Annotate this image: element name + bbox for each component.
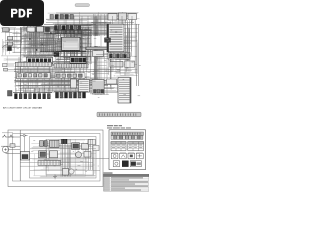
wires into CN9 <box>104 84 118 92</box>
terminal strip T1 <box>16 62 52 66</box>
CN9 right edge <box>130 78 131 104</box>
legend table L <box>111 142 126 151</box>
legend header bar <box>111 132 144 135</box>
U1 inner shade <box>64 43 79 49</box>
terminal row TR1 <box>15 94 51 99</box>
junction box A1 <box>27 27 35 32</box>
fuse labels <box>2 132 13 134</box>
connector CN7 <box>92 80 104 95</box>
capacitor C1 <box>8 47 12 51</box>
wire mesh background left lower <box>4 56 26 72</box>
legend dark chip <box>122 161 128 167</box>
wire mesh background right bundle <box>90 16 112 95</box>
CN3 side bundle <box>126 20 132 56</box>
label text <box>3 29 10 31</box>
resistor R2 <box>8 42 13 45</box>
ground bus <box>13 92 52 94</box>
connector row CN1 <box>50 15 73 20</box>
battery wires <box>1 145 20 147</box>
connector bank CN2 <box>55 26 81 31</box>
wire mesh background lower rows <box>14 61 90 92</box>
connector CN9 tall <box>118 78 131 104</box>
component value labels <box>2 27 141 172</box>
module M2 <box>110 62 123 68</box>
relay bank RB1 <box>27 57 53 64</box>
amp box <box>84 152 91 158</box>
legend table R <box>128 142 144 151</box>
RL1 contacts <box>22 155 28 159</box>
wire mesh background mid band <box>16 76 122 93</box>
legend caption line 1 <box>107 125 122 126</box>
vertical bundle center <box>61 139 71 176</box>
dense bus top right <box>75 26 115 31</box>
bus over CN2 <box>44 24 96 26</box>
wire mesh A horizontals <box>21 28 56 55</box>
relay RL2 <box>39 151 47 158</box>
motor M blower <box>76 152 82 158</box>
notes table row lines <box>104 179 150 189</box>
breaker box B1 <box>8 91 13 97</box>
compressor relay <box>72 143 80 150</box>
bar bus right <box>86 47 110 50</box>
connector CN8 rows <box>107 79 117 84</box>
terminal row TR2 bus <box>54 91 88 93</box>
resistor R1 <box>8 37 13 40</box>
diode D1 <box>46 28 50 32</box>
battery G1 <box>2 146 8 152</box>
CN3 left edge <box>107 24 109 52</box>
switch S1 <box>3 28 10 32</box>
notes table caption <box>104 172 113 174</box>
notes table rows <box>104 177 148 191</box>
wire bus mid verticals <box>24 66 76 92</box>
relay RL3 <box>50 151 58 158</box>
fuse F1 <box>2 135 7 137</box>
pressure switch box <box>82 144 89 150</box>
CN3 pin lines <box>110 26 123 50</box>
wire mesh AC diagram interior <box>30 139 96 177</box>
wire mesh background left column <box>1 27 22 56</box>
legend table content marks <box>112 145 142 148</box>
wires to modules <box>96 55 108 59</box>
ground symbol <box>53 175 57 179</box>
legend icon box 5 <box>113 161 119 167</box>
wire harness top <box>46 18 120 20</box>
legend icon captions <box>112 151 118 153</box>
vertical bundle right <box>89 139 93 170</box>
fusible link box <box>10 144 15 147</box>
feed wire top <box>7 136 20 138</box>
legend icon box 2 <box>120 153 127 159</box>
legend brand plate <box>130 161 141 167</box>
terminal strip T4 <box>55 73 85 78</box>
legend icon box 4 <box>136 153 143 159</box>
wire mesh A verticals <box>24 26 54 57</box>
cross wires <box>30 148 96 150</box>
part number strip <box>97 112 141 117</box>
terminal strip T3 <box>54 64 88 68</box>
wire stubs left <box>13 33 22 52</box>
relay box RL1 <box>21 152 30 161</box>
TS2 label line <box>38 158 58 160</box>
terminal strip TS2 <box>38 161 61 166</box>
wire mesh C horizontals <box>56 31 92 52</box>
link to legend <box>96 158 109 160</box>
fuse F2 <box>9 135 14 137</box>
vertical feeder <box>20 27 22 96</box>
wire curve <box>2 45 8 48</box>
wire mesh B <box>40 38 62 49</box>
diode D2 <box>62 139 68 143</box>
motor M2 condenser <box>69 169 74 174</box>
terminal row TR2 <box>56 92 86 98</box>
PDF badge <box>0 0 44 26</box>
AC diagram frame 2 <box>13 134 101 182</box>
AC diagram frame 3 <box>30 137 97 179</box>
notes table header <box>104 174 150 176</box>
wire bus mid <box>14 70 120 72</box>
sensor stubs <box>8 65 15 70</box>
sensor SW4 <box>4 68 8 71</box>
wire mesh background core <box>55 24 92 64</box>
module M3 <box>125 61 135 67</box>
op-amp U1 body <box>62 37 81 50</box>
legend outer box <box>109 130 146 170</box>
IC U2 dark cluster <box>70 57 86 63</box>
thermo amp box <box>50 140 60 147</box>
wire mesh background top band <box>48 12 140 25</box>
legend caption line 2 <box>107 127 131 128</box>
relay box K3 <box>128 14 137 20</box>
connector bank CN2 row 2 <box>55 30 81 33</box>
connector CN3 body <box>107 24 124 52</box>
relay box K2 <box>119 13 127 20</box>
power bus dark <box>40 50 86 52</box>
terminal row TR1 stubs <box>16 88 49 94</box>
legend icon box 3 <box>128 153 135 159</box>
node dots A <box>29 32 51 50</box>
small box cluster right <box>93 146 99 151</box>
transistor Q1 <box>54 53 59 57</box>
connector CN5 <box>71 79 77 88</box>
terminal strip T2 <box>17 73 51 79</box>
main vertical feed <box>19 130 21 181</box>
condenser fan box <box>88 140 96 145</box>
evaporator box <box>63 169 69 176</box>
junction box A2 <box>37 27 44 33</box>
module M1 <box>93 51 104 57</box>
right bus verticals <box>137 24 139 86</box>
ferrite FB1 <box>105 38 111 42</box>
AC diagram outer frame <box>8 130 103 187</box>
notes table body <box>104 177 150 192</box>
wire mesh C verticals <box>81 25 91 64</box>
connector CN6 <box>79 80 90 93</box>
U1 pin hatch <box>63 38 77 42</box>
switch S2 symbol <box>20 134 28 136</box>
sensor SW3 <box>3 64 8 67</box>
relay box K1 <box>108 14 117 21</box>
legend icon box 1 <box>111 153 118 159</box>
wire mesh background right block zone <box>112 20 138 76</box>
connector CN4 <box>108 53 130 60</box>
open area near CN3 <box>93 36 107 46</box>
legend header ticks <box>113 133 141 135</box>
wire mesh background zone A <box>21 26 58 57</box>
legend cell row <box>111 136 143 140</box>
title label bar <box>75 4 90 7</box>
wire drops from top bus <box>58 16 132 25</box>
svg-text:AIR CONDITIONER CIRCUIT DIAGRA: AIR CONDITIONER CIRCUIT DIAGRAM <box>3 107 42 110</box>
AC diagram frame 4 <box>46 139 93 175</box>
blower resistor pack <box>40 141 44 147</box>
